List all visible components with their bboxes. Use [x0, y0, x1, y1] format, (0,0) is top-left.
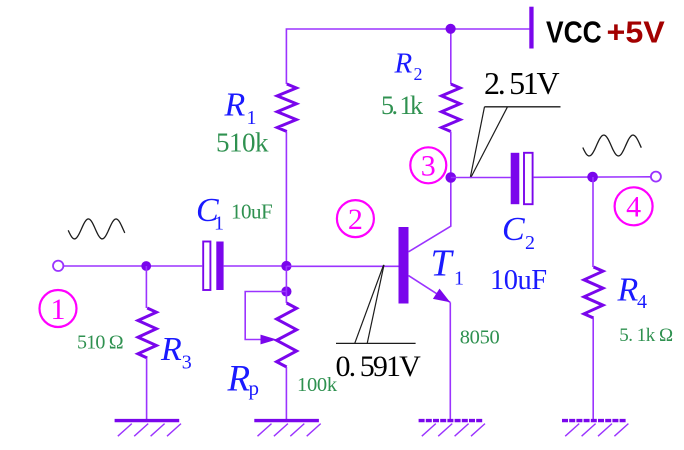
callout leader lines 0.591V	[355, 265, 384, 344]
wire R3 to ground	[146, 358, 148, 421]
wire node4 to R4	[592, 177, 594, 267]
svg-text:p: p	[249, 376, 260, 400]
svg-text:VCC: VCC	[546, 16, 602, 50]
wire C1 to base node	[224, 265, 287, 267]
svg-text:510k: 510k	[216, 128, 269, 158]
callout underline 0.591V	[336, 342, 416, 344]
capacitor C2	[511, 153, 520, 204]
+5V label	[607, 14, 665, 49]
svg-text:100k: 100k	[297, 374, 338, 396]
svg-text:R: R	[224, 87, 246, 124]
ground under Rp	[254, 419, 319, 422]
ground under R4	[562, 419, 627, 422]
node junction dot input/R3	[141, 261, 151, 271]
output sine wave	[583, 135, 642, 156]
resistor R3	[138, 308, 156, 358]
svg-text:C: C	[502, 211, 525, 248]
wire node3 to C2	[451, 177, 511, 179]
node label 2 circled	[337, 200, 374, 237]
VCC label	[546, 16, 602, 50]
svg-text:10uF: 10uF	[490, 265, 547, 296]
wire R2 bottom to node 3	[450, 132, 452, 178]
wire node to R3	[145, 266, 147, 308]
wire base node to transistor	[286, 265, 398, 267]
node junction dot base	[281, 261, 291, 271]
svg-text:2. 51V: 2. 51V	[484, 65, 560, 101]
input sine wave	[68, 219, 125, 239]
ground under emitter	[419, 419, 484, 422]
svg-text:+5V: +5V	[607, 14, 665, 49]
wire node to Rp	[285, 266, 287, 303]
svg-text:1: 1	[454, 268, 464, 290]
svg-text:R: R	[617, 272, 639, 309]
svg-text:R: R	[227, 359, 251, 400]
wire R2 top branch	[450, 29, 452, 84]
resistor R1	[277, 84, 296, 132]
transistor collector lead	[409, 178, 451, 252]
VCC power bar	[529, 7, 533, 49]
svg-text:1: 1	[214, 213, 224, 235]
transistor T1 base bar	[399, 227, 409, 304]
svg-text:1: 1	[247, 107, 257, 129]
emitter arrowhead	[433, 289, 450, 303]
svg-text:2: 2	[414, 64, 423, 84]
wire C2 to node 4	[534, 176, 651, 179]
svg-text:4: 4	[626, 191, 641, 224]
node junction dot 3	[446, 172, 457, 183]
wire Rp to ground	[285, 367, 287, 421]
svg-text:5. 1k Ω: 5. 1k Ω	[619, 325, 673, 346]
svg-text:2: 2	[348, 203, 363, 236]
svg-text:3: 3	[182, 352, 192, 374]
resistor R4	[584, 267, 603, 318]
wiper arrowhead	[261, 335, 277, 345]
callout leader lines 2.51V	[470, 107, 484, 178]
svg-text:10uF: 10uF	[231, 200, 272, 224]
node label 4 circled	[615, 187, 653, 225]
callout underline 2.51V	[485, 106, 561, 108]
transistor emitter lead	[409, 276, 451, 303]
node junction dot 4	[587, 172, 598, 183]
svg-text:5. 1k: 5. 1k	[381, 91, 423, 120]
output terminal open circle	[651, 172, 661, 182]
node label 3 circled	[410, 147, 446, 183]
input terminal open circle	[53, 261, 63, 271]
node junction dot wiper	[281, 286, 291, 296]
wiper wire of Rp	[245, 292, 286, 340]
node junction dot at VCC rail	[446, 24, 456, 34]
wire R4 to ground	[592, 318, 594, 421]
resistor R2	[442, 84, 461, 132]
wire emitter to ground	[449, 302, 451, 420]
svg-text:3: 3	[421, 150, 436, 183]
svg-text:R: R	[160, 331, 182, 368]
svg-text:510 Ω: 510 Ω	[77, 332, 123, 354]
svg-text:T: T	[431, 243, 455, 285]
svg-text:R: R	[394, 48, 413, 80]
wire top rail	[286, 29, 529, 84]
capacitor C1	[203, 242, 210, 291]
ground under R3	[115, 419, 180, 422]
svg-text:1: 1	[51, 293, 66, 326]
wire R1 bottom to base node	[285, 132, 287, 267]
potentiometer Rp	[277, 303, 297, 367]
node label 1 circled	[40, 290, 77, 327]
wire input to C1	[64, 265, 203, 267]
svg-text:4: 4	[637, 291, 647, 313]
svg-text:0. 591V: 0. 591V	[336, 350, 422, 383]
svg-text:2: 2	[525, 232, 535, 254]
svg-text:8050: 8050	[460, 327, 500, 349]
